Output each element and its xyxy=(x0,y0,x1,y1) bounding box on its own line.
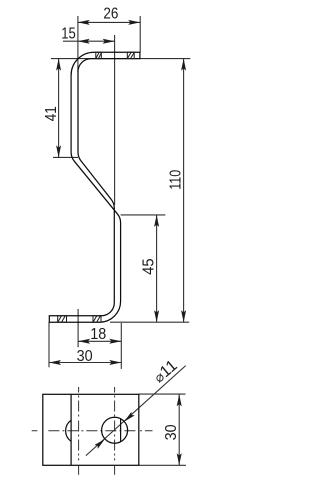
svg-text:30: 30 xyxy=(163,424,180,440)
svg-text:41: 41 xyxy=(43,106,60,121)
svg-text:18: 18 xyxy=(90,326,106,343)
svg-text:26: 26 xyxy=(103,6,118,23)
svg-text:110: 110 xyxy=(168,170,185,190)
svg-text:30: 30 xyxy=(77,348,93,365)
svg-text:45: 45 xyxy=(141,258,158,275)
svg-text:15: 15 xyxy=(61,25,76,42)
